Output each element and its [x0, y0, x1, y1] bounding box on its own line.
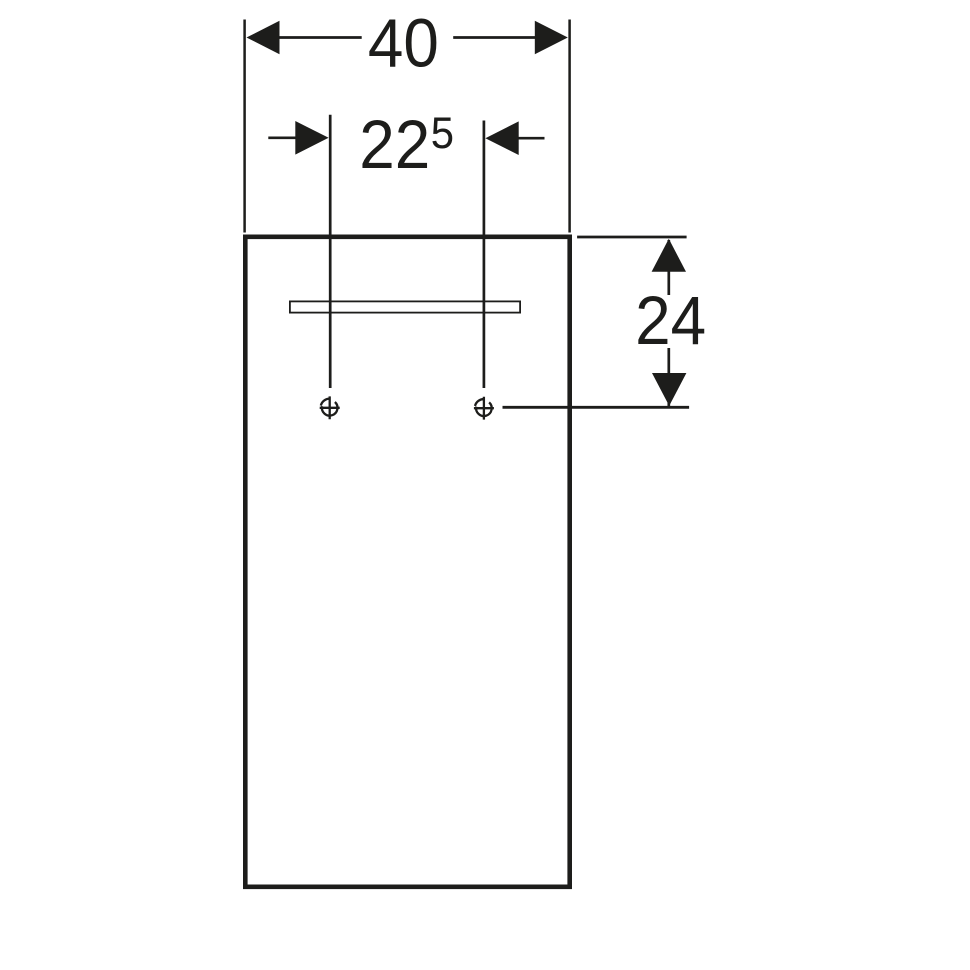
dimension 24 bottom reference line	[503, 406, 690, 409]
dimension 22.5 extension line right	[483, 121, 486, 389]
svg-text:24: 24	[635, 283, 706, 360]
dimension 22.5 arrow right	[485, 121, 518, 155]
dimension 22.5 arrow right tail	[517, 137, 544, 140]
dimension 24 line	[667, 240, 670, 406]
fixing point screw symbol left	[320, 396, 340, 419]
dimension 22.5 extension line left	[329, 115, 332, 388]
dimension 24 arrow up	[652, 239, 686, 272]
dimension 24 arrow down	[652, 373, 686, 406]
svg-text:40: 40	[368, 5, 439, 82]
dimension 40 extension line right	[568, 20, 571, 233]
dimension 24 top reference line	[577, 236, 687, 239]
light bar	[290, 301, 520, 312]
fixing point screw symbol right	[474, 397, 494, 420]
dimension 40 arrow left	[247, 21, 280, 54]
dimension 22.5 arrow left	[295, 121, 328, 155]
dimension 40 line	[280, 36, 536, 39]
mirror cabinet outline	[245, 237, 569, 887]
dimension 40 arrow right	[535, 21, 568, 54]
svg-text:22: 22	[359, 107, 430, 184]
dimension 40 extension line left	[243, 20, 246, 233]
svg-text:5: 5	[431, 109, 454, 158]
dimension 22.5 arrow left tail	[268, 136, 296, 139]
